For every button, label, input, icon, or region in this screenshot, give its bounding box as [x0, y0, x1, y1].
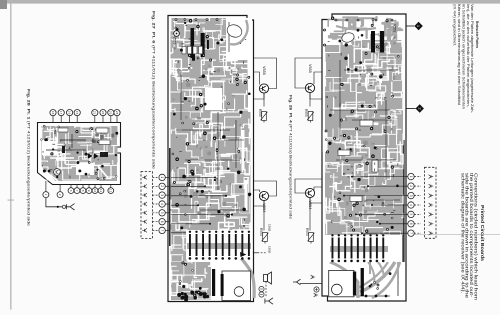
wire to antenna PL1: [46, 198, 62, 207]
svg-text:3: 3: [160, 194, 164, 196]
IF filter comb PL6: [186, 231, 252, 259]
board PL4 right edge thick band: [402, 140, 404, 262]
copper traces PL6 lower: [171, 230, 254, 300]
svg-text:7: 7: [409, 232, 413, 234]
terminal 2 PL4: [406, 185, 408, 187]
svg-text:16: 16: [68, 111, 72, 115]
electrolytic capacitors PL6: [191, 28, 195, 58]
svg-text:2: 2: [160, 185, 164, 187]
svg-text:7: 7: [160, 230, 164, 232]
svg-text:↓1Ω: ↓1Ω: [91, 148, 95, 154]
svg-text:V555: V555: [262, 66, 266, 75]
potentiometer R555 (PL6): [263, 93, 265, 107]
board PL6 outline: [168, 16, 254, 302]
copper traces PL6 main: [171, 92, 251, 262]
svg-text:1: 1: [160, 177, 164, 179]
svg-text:R555: R555: [258, 109, 262, 117]
transistor V555 (PL4): [295, 58, 322, 99]
top edge pads PL4: [335, 19, 394, 22]
svg-text:schematic diagram of the recei: schematic diagram of the receiver (see I…: [460, 173, 465, 293]
terminal 5 PL4: [406, 213, 408, 215]
svg-text:∿: ∿: [173, 47, 177, 50]
bottom pads row PL6: [177, 290, 209, 301]
page top scan bar: [0, 0, 7, 9]
speaker (PL6): [264, 275, 268, 282]
svg-text:10: 10: [93, 189, 97, 193]
copper traces PL6 upper: [171, 18, 253, 114]
svg-text:3: 3: [409, 195, 413, 197]
svg-text:Bedruckte Platten: Bedruckte Platten: [475, 21, 479, 49]
copper traces PL4 upper: [325, 17, 402, 92]
svg-text:23: 23: [109, 111, 113, 115]
svg-text:Fig. 28 Pl. 1 (PT 4123/01z) B: Fig. 28 Pl. 1 (PT 4123/01z) Bedruckungss…: [27, 89, 32, 226]
connector pin 7 PL6: [142, 228, 147, 232]
potentiometer R554 (PL4): [309, 198, 311, 231]
connector pin 5 PL6: [142, 211, 147, 215]
svg-text:6: 6: [409, 223, 413, 225]
svg-text:(IX 4/4) eingezeichnet.: (IX 4/4) eingezeichnet.: [452, 4, 456, 46]
wire links PL4: [330, 60, 406, 234]
terminal 1 PL4: [406, 176, 408, 178]
output transformer PL6: [222, 271, 251, 301]
svg-text:führen, sind in Übereinstimmun: führen, sind in Übereinstimmung mit dem …: [457, 4, 461, 105]
connector pin 1 PL6: [142, 175, 147, 179]
svg-text:R555: R555: [304, 109, 308, 117]
component rects PL4: [360, 120, 373, 126]
transistor V554 (PL4): [295, 179, 322, 203]
svg-text:V555: V555: [308, 64, 312, 73]
output transformer PL4: [329, 270, 354, 296]
connector pin 6 PL6: [142, 220, 147, 224]
copper traces PL4 main: [323, 92, 404, 235]
transistor V555 (PL6): [254, 58, 277, 99]
svg-text:Printed Circuit Boards: Printed Circuit Boards: [480, 205, 485, 262]
bottom pads row PL4: [365, 295, 368, 298]
connector pin 3 PL6: [142, 193, 147, 197]
svg-text:V553: V553: [393, 24, 397, 32]
svg-text:18: 18: [51, 111, 55, 115]
component row PL6: [182, 46, 186, 54]
tiny part labels PL1: [42, 129, 111, 179]
svg-text:V553: V553: [173, 36, 177, 44]
left edge pads PL4: [323, 29, 326, 32]
terminal 7 PL4: [406, 232, 408, 234]
connector symbols PL4 bottom left: [300, 283, 322, 285]
svg-text:1: 1: [409, 176, 413, 178]
potentiometer R555 (PL4): [309, 93, 311, 107]
connector pin 2 PL6: [142, 184, 147, 188]
transistor V551 on PL1: [54, 169, 61, 176]
terminal 3 PL4: [406, 195, 408, 197]
transistor V554 (PL6): [254, 181, 277, 206]
capacitors PL4 bottom: [353, 272, 356, 296]
terminal 6 PL4: [406, 223, 408, 225]
board PL1 outline: [38, 123, 121, 185]
antenna (right of PL6): [293, 279, 301, 285]
svg-text:Fig. 26 Pl. 4 (PT 4111/01a) B: Fig. 26 Pl. 4 (PT 4111/01a) Bedruckungss…: [289, 95, 294, 220]
copper traces PL1: [41, 126, 118, 181]
tiny part labels PL4: [327, 36, 398, 223]
antenna (PL6 bottom): [265, 298, 273, 304]
svg-text:V551: V551: [53, 128, 57, 135]
top edge pads PL6: [175, 18, 219, 21]
oval coil PL6: [225, 23, 243, 39]
svg-text:150Ω: 150Ω: [268, 224, 272, 232]
svg-text:17: 17: [59, 111, 63, 115]
svg-text:11: 11: [99, 189, 103, 192]
svg-text:12: 12: [109, 189, 113, 193]
cable box PL4 (dashed): [425, 167, 437, 238]
jack symbols (PL6): [259, 286, 264, 291]
tiny part labels PL6: [176, 25, 246, 221]
link arrow 150ohm PL6: [254, 252, 258, 254]
svg-text:R554: R554: [305, 228, 309, 236]
board PL6 left edge thick bar: [169, 148, 172, 246]
pads PL6: [172, 19, 252, 229]
diamond terminal 1: [406, 25, 414, 27]
components PL1: [58, 128, 68, 132]
terminals PL1 bottom rows: [70, 185, 72, 188]
terminals PL1 top row: [52, 116, 54, 123]
transistor V553 marker PL6: [174, 31, 180, 37]
svg-text:150Ω: 150Ω: [268, 246, 272, 254]
antenna symbol PL1: [66, 204, 74, 210]
cable box PL6 (dashed): [141, 172, 153, 239]
svg-text:6: 6: [160, 221, 164, 223]
svg-text:len), die zu den außerhalb der: len), die zu den außerhalb der Platten a…: [466, 4, 470, 107]
page left edge rule: [10, 4, 11, 310]
board PL4 outline: [322, 14, 406, 301]
svg-text:21: 21: [93, 111, 97, 115]
svg-text:Von den Platten abgehende Leit: Von den Platten abgehende Leitungen (ang…: [470, 4, 474, 114]
copper traces PL4 lower: [330, 262, 400, 298]
svg-text:im Schaltbild jedoch eingezeic: im Schaltbild jedoch eingezeichneten Sch…: [461, 4, 465, 109]
diamond terminal 2: [406, 108, 416, 110]
IF filter comb PL4: [329, 235, 389, 262]
svg-text:15: 15: [75, 111, 79, 115]
oval coil PL4: [341, 31, 355, 43]
pads PL4: [325, 17, 400, 233]
page fold line right: [413, 233, 500, 236]
connector pin 4 PL6: [142, 202, 147, 206]
terminal 4 PL4: [406, 204, 408, 206]
potentiometer R554 (PL6): [263, 201, 265, 231]
svg-text:4: 4: [160, 203, 164, 205]
pads PL1: [40, 125, 118, 180]
svg-text:4: 4: [409, 204, 413, 206]
wire links PL6: [171, 70, 246, 234]
svg-text:R554: R554: [259, 228, 263, 236]
svg-text:5: 5: [160, 212, 164, 214]
svg-text:Fig. 27 Pl. 6 (PT 4111/01z) B: Fig. 27 Pl. 6 (PT 4111/01z) Bestückungss…: [152, 11, 157, 170]
capacitors PL6 bottom: [212, 269, 215, 296]
svg-text:5: 5: [409, 214, 413, 216]
svg-text:2: 2: [409, 185, 413, 187]
electrolytic capacitors PL4: [371, 31, 375, 53]
svg-text:22: 22: [101, 111, 105, 115]
svg-text:∿: ∿: [393, 36, 397, 39]
svg-text:24: 24: [115, 111, 119, 115]
